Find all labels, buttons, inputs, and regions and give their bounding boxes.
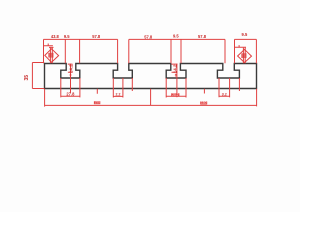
svg-text:27.8: 27.8 [66,92,75,97]
svg-text:150: 150 [94,101,100,105]
svg-text:43.8: 43.8 [51,34,60,39]
svg-text:14.2: 14.2 [173,64,178,73]
svg-text:57.8: 57.8 [198,34,207,39]
svg-text:14.2: 14.2 [68,64,73,73]
svg-text:9.5: 9.5 [242,32,248,37]
svg-text:28.2: 28.2 [172,93,178,97]
svg-text:9.5: 9.5 [173,34,179,39]
svg-text:3.2: 3.2 [222,93,227,97]
svg-text:57.8: 57.8 [144,34,153,39]
svg-text:150: 150 [201,101,207,105]
svg-text:57.8: 57.8 [92,34,101,39]
svg-text:2.2: 2.2 [116,93,121,97]
svg-text:35: 35 [24,75,30,81]
svg-text:9.5: 9.5 [64,34,70,39]
